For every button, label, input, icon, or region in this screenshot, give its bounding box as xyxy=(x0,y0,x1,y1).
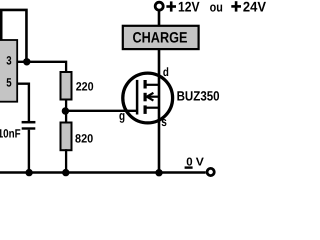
MOSFET drain connection xyxy=(145,84,159,86)
terminal +V supply xyxy=(155,2,163,10)
wire feedback loop from IC top to pin 3 node xyxy=(1,10,26,62)
svg-text:10nF: 10nF xyxy=(0,127,21,141)
svg-text:ou: ou xyxy=(210,0,223,15)
MOSFET channel segment middle xyxy=(144,93,147,102)
terminal 0V xyxy=(207,168,214,175)
svg-text:220: 220 xyxy=(76,79,94,93)
node junction dot R1/R2 xyxy=(62,107,69,114)
resistor R2 820 xyxy=(61,123,72,151)
wire R1 bottom to R2 top xyxy=(65,100,67,123)
resistor R1 220 xyxy=(61,72,72,100)
capacitor C1 top plate xyxy=(22,121,36,124)
svg-text:CHARGE: CHARGE xyxy=(133,29,188,46)
wire C1 bottom to ground rail xyxy=(28,130,30,173)
svg-text:d: d xyxy=(163,65,169,79)
node junction dot R2/rail xyxy=(62,169,69,176)
MOSFET channel segment bottom xyxy=(144,105,147,114)
wire CHARGE box to drain / source to rail (main vertical) xyxy=(158,49,161,173)
MOSFET channel segment top xyxy=(144,80,147,89)
ground rail 0V wire xyxy=(0,171,206,173)
MOSFET body arrow line xyxy=(147,96,159,98)
MOSFET Q1 body circle xyxy=(123,73,173,123)
svg-text:s: s xyxy=(161,114,167,129)
MOSFET body arrow barb lower xyxy=(147,97,154,101)
wire node to MOSFET gate xyxy=(65,110,138,112)
svg-text:3: 3 xyxy=(6,53,12,67)
svg-text:820: 820 xyxy=(75,131,93,145)
MOSFET source connection xyxy=(145,107,159,109)
wire pin 3 to R1 top xyxy=(17,62,66,72)
wire +V terminal to CHARGE box xyxy=(158,10,161,26)
svg-text:V: V xyxy=(196,156,205,168)
node junction dot pin3 xyxy=(23,58,30,65)
node junction dot source/rail xyxy=(155,169,162,176)
MOSFET body arrow barb upper xyxy=(147,93,154,97)
svg-text:g: g xyxy=(119,108,125,123)
wire R2 bottom to ground rail xyxy=(65,149,67,172)
svg-text:BUZ350: BUZ350 xyxy=(177,88,220,103)
+12V label plus sign 1 xyxy=(170,1,173,11)
IC U1 (partial, clipped at left edge) xyxy=(0,40,17,102)
MOSFET gate bar xyxy=(136,80,139,115)
0 label underline xyxy=(185,166,193,168)
svg-text:5: 5 xyxy=(6,75,12,89)
svg-text:12V: 12V xyxy=(178,0,200,15)
node junction dot C1/rail xyxy=(25,169,32,176)
capacitor C1 bottom plate xyxy=(22,127,36,129)
wire pin 5 to capacitor C1 xyxy=(17,84,29,122)
CHARGE load box xyxy=(123,26,199,49)
svg-text:24V: 24V xyxy=(243,0,267,15)
+24V label plus sign 2 xyxy=(235,1,238,11)
